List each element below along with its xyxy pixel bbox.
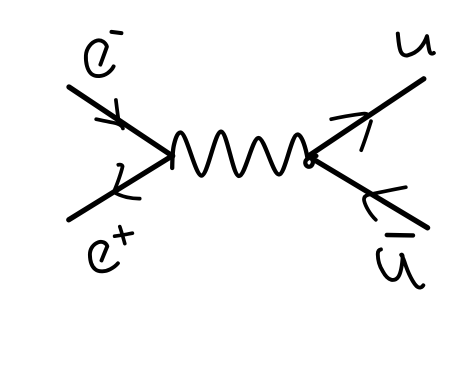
label e+ [90, 242, 118, 272]
arrow on anti-u quark line [364, 187, 406, 220]
label e- superscript minus [112, 32, 122, 33]
label e+ superscript plus [115, 227, 133, 244]
u quark line (outgoing, upper right) [308, 79, 424, 157]
photon wavy line (gamma) between vertices [172, 132, 316, 176]
label u-bar overbar [387, 233, 413, 238]
electron line e- (incoming, upper left) [69, 87, 173, 156]
anti-u quark line (outgoing, lower right) [309, 156, 428, 227]
arrow on electron line [96, 100, 123, 128]
label u [398, 34, 434, 56]
positron line e+ (incoming, lower left) [69, 156, 173, 220]
arrow on positron line [114, 165, 140, 199]
label u-bar [378, 249, 424, 287]
label e- [86, 40, 114, 76]
arrow on u quark line [331, 114, 371, 151]
